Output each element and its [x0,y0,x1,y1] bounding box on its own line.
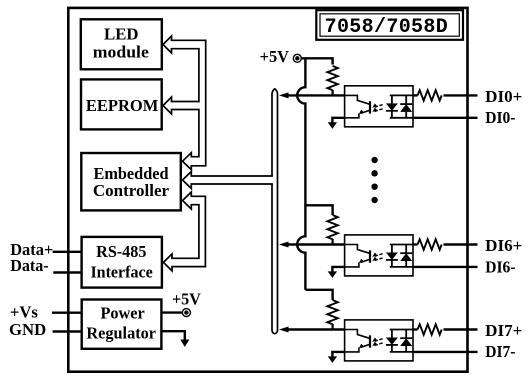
svg-text:Data-: Data- [10,256,49,275]
wire: branch to R3 [305,290,332,300]
svg-text:+5V: +5V [172,290,201,309]
svg-text:Embedded: Embedded [94,164,170,183]
box Embedded Controller U2 [81,153,181,210]
wire Data+ [53,251,82,253]
wire Data- [53,271,81,273]
main border frame [68,8,467,372]
hollow tree: controller to RS-485 [163,192,205,271]
svg-text:Power: Power [100,303,145,322]
svg-text:DI7+: DI7+ [485,321,522,340]
wire GND [53,330,82,332]
box Power Regulator [82,300,162,349]
svg-text:GND: GND [9,320,46,339]
svg-text:DI7-: DI7- [485,342,516,361]
svg-text:+5V: +5V [260,47,290,66]
wire: +5V vertical rail with hops [297,58,305,289]
svg-text:DI6-: DI6- [485,257,516,276]
title box 7058/7058D [316,10,463,40]
opto row DI7 [279,300,478,363]
wire: branch to R2 [305,205,332,215]
svg-text:LED: LED [104,25,139,44]
svg-text:Regulator: Regulator [86,323,156,342]
svg-text:Interface: Interface [90,263,153,282]
terminal +5V circle [293,54,301,62]
wire +Vs [52,312,82,314]
capsule bus (obround) [272,89,278,334]
svg-text:7058/7058D: 7058/7058D [325,16,449,39]
dots ellipsis [371,157,377,163]
svg-text:DI6+: DI6+ [485,236,522,255]
hollow tree: controller to LED module and EEPROM [163,36,206,170]
box EEPROM [81,79,162,129]
wire power reg to +5V terminal [161,311,182,313]
svg-text:Controller: Controller [93,181,170,200]
svg-text:DI0-: DI0- [485,108,516,127]
opto row DI0 [279,66,478,129]
terminal +5V circle (power) [182,309,190,317]
box LED module [81,19,162,69]
svg-text:EEPROM: EEPROM [86,96,159,115]
wire power reg ground arrow [161,331,184,340]
wire: +5V horizontal to resistor R1 top [301,58,333,64]
svg-text:DI0+: DI0+ [485,87,522,106]
svg-text:module: module [93,43,149,62]
opto row DI6 [279,215,478,278]
svg-text:+Vs: +Vs [10,302,38,321]
hollow connector: capsule to controller [183,172,274,189]
svg-text:RS-485: RS-485 [96,242,146,261]
box RS-485 Interface [82,237,162,288]
